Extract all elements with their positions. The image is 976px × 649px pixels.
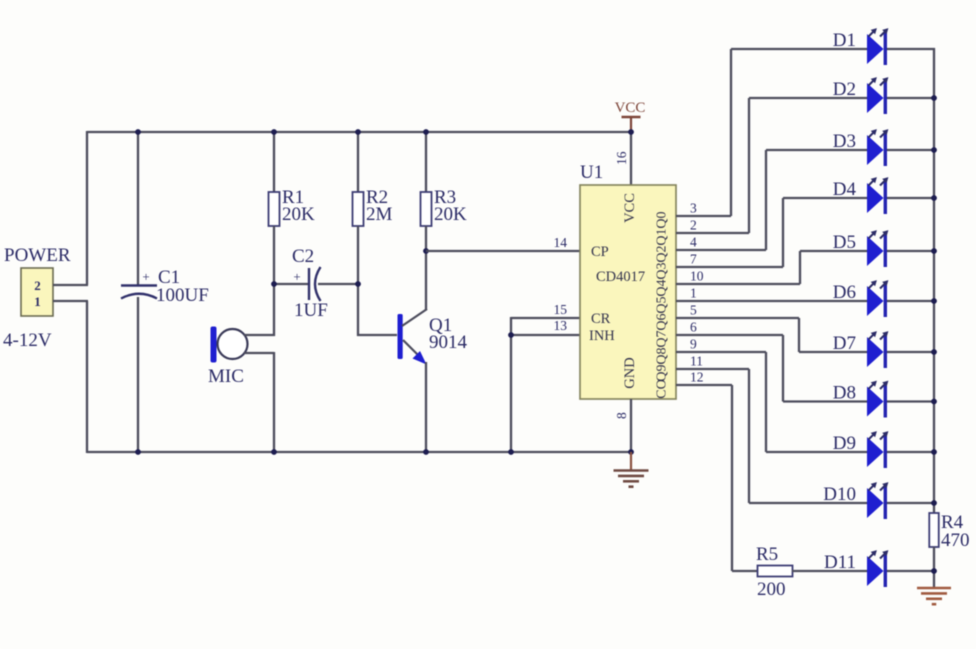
wire pin 9 to D9 xyxy=(676,352,867,452)
wire C1 bottom lead xyxy=(137,297,139,453)
wire CP pin 14 xyxy=(426,250,580,252)
capacitor C2 plus sign xyxy=(293,269,300,284)
svg-text:100UF: 100UF xyxy=(156,285,209,306)
wire R3 top lead xyxy=(425,131,427,192)
IC pin name Q1 xyxy=(655,228,670,245)
LED D9 xyxy=(867,431,888,468)
svg-text:Q8: Q8 xyxy=(655,347,670,364)
junction INH node xyxy=(508,332,514,338)
pin 6 number xyxy=(690,320,697,335)
transistor Q1 collector xyxy=(402,252,427,326)
svg-text:2M: 2M xyxy=(366,204,393,225)
LED D5 label xyxy=(833,232,856,253)
wire POWER pin1 to left rail xyxy=(53,300,88,302)
transistor Q1 value 9014 xyxy=(429,332,468,353)
wire IC pin8 to ground xyxy=(630,399,632,453)
junction Q1 collector to CP xyxy=(423,248,429,254)
resistor R3 body xyxy=(421,192,432,226)
pin 12 number xyxy=(690,370,704,385)
svg-text:Q0: Q0 xyxy=(655,211,670,228)
svg-text:INH: INH xyxy=(589,328,615,344)
wire D11 cathode to rail xyxy=(887,570,935,572)
svg-text:+: + xyxy=(293,269,300,284)
svg-text:CD4017: CD4017 xyxy=(596,269,645,285)
junction CR-INH ground rail xyxy=(508,449,514,455)
svg-text:200: 200 xyxy=(757,579,786,600)
svg-text:Q3: Q3 xyxy=(655,262,670,279)
svg-text:8: 8 xyxy=(614,412,629,419)
junction rail D5 xyxy=(931,248,937,254)
pin 2 label of POWER xyxy=(34,278,41,293)
wire INH pin 13 xyxy=(511,334,580,336)
svg-text:470: 470 xyxy=(941,530,970,551)
svg-text:11: 11 xyxy=(690,354,703,369)
junction rail D4 xyxy=(931,195,937,201)
svg-text:D2: D2 xyxy=(833,79,856,100)
IC pin name Q5 xyxy=(655,296,670,313)
wire D2 cathode to rail xyxy=(887,97,935,99)
svg-text:C2: C2 xyxy=(292,246,314,267)
ground symbol right xyxy=(917,588,951,604)
IC pin name INH xyxy=(589,328,615,344)
junction rail D7 xyxy=(931,349,937,355)
LED D5 xyxy=(867,230,888,267)
svg-text:12: 12 xyxy=(690,370,704,385)
svg-text:Q9: Q9 xyxy=(655,364,670,381)
pin 10 number xyxy=(690,269,704,284)
wire CR-INH down to ground rail xyxy=(510,317,512,453)
svg-text:CP: CP xyxy=(591,244,609,260)
pin 13 number xyxy=(554,318,568,333)
svg-text:1: 1 xyxy=(34,294,41,309)
IC pin name CO xyxy=(655,379,670,398)
LED D6 label xyxy=(833,282,856,303)
junction rail D2 xyxy=(931,95,937,101)
pin 7 number xyxy=(690,252,697,267)
resistor R2 body xyxy=(353,192,364,226)
pin 4 number xyxy=(690,235,697,250)
wire D6 cathode to rail xyxy=(887,300,935,302)
wire pin 3 to D1 xyxy=(676,49,867,216)
resistor R5 value 200 xyxy=(757,579,786,600)
IC pin name Q9 xyxy=(655,364,670,381)
wire C2 left lead xyxy=(274,283,309,285)
LED D2 xyxy=(867,77,888,114)
svg-text:D6: D6 xyxy=(833,282,856,303)
junction rail D9 xyxy=(931,449,937,455)
wire LED cathode rail xyxy=(933,48,935,513)
wire pin 7 to D4 xyxy=(676,198,867,267)
capacitor C2 value 1UF xyxy=(294,300,328,321)
svg-text:3: 3 xyxy=(690,201,697,216)
resistor R5 body xyxy=(758,566,793,577)
svg-text:1: 1 xyxy=(690,286,697,301)
svg-text:4-12V: 4-12V xyxy=(3,330,52,351)
resistor R2 designator xyxy=(366,187,388,208)
transistor Q1 base bar xyxy=(398,314,403,359)
IC pin name Q7 xyxy=(655,330,670,347)
resistor R1 value 20K xyxy=(282,204,315,225)
LED D6 xyxy=(867,280,888,317)
wire left rail lower segment xyxy=(86,301,88,453)
wire D9 cathode to rail xyxy=(887,451,935,453)
wire pin 2 to D2 xyxy=(676,98,867,233)
svg-text:U1: U1 xyxy=(580,162,603,183)
svg-text:Q4: Q4 xyxy=(655,279,670,296)
junction R1 top rail xyxy=(271,129,277,135)
IC pin name VCC xyxy=(622,193,638,223)
ground symbol under IC xyxy=(614,452,649,487)
wire R4 to ground xyxy=(933,547,935,588)
pin 1 number xyxy=(690,286,697,301)
IC pin name Q8 xyxy=(655,347,670,364)
LED D4 xyxy=(867,177,888,214)
capacitor C1 plus sign xyxy=(142,269,149,284)
connector J1 POWER body xyxy=(21,268,53,316)
wire R1 bottom lead to MIC xyxy=(273,226,275,336)
svg-text:VCC: VCC xyxy=(622,193,638,223)
LED D7 xyxy=(867,331,888,368)
svg-text:POWER: POWER xyxy=(4,245,71,266)
wire C2 right lead xyxy=(318,283,358,285)
pin 3 number xyxy=(690,201,697,216)
svg-text:10: 10 xyxy=(690,269,704,284)
junction C1 top rail xyxy=(135,129,141,135)
svg-text:4: 4 xyxy=(690,235,697,250)
pin 16 number xyxy=(614,151,629,165)
svg-text:7: 7 xyxy=(690,252,697,267)
IC pin name Q3 xyxy=(655,262,670,279)
LED D11 label xyxy=(824,552,856,573)
IC U1 CD4017 body xyxy=(580,185,676,399)
pin 8 number xyxy=(614,412,629,419)
IC part number CD4017 xyxy=(596,269,645,285)
resistor R5 designator xyxy=(756,544,778,565)
IC pin name Q0 xyxy=(655,211,670,228)
wire C1 top lead xyxy=(137,131,139,285)
IC pin name GND xyxy=(622,357,638,388)
junction C1 bottom rail xyxy=(135,449,141,455)
capacitor C2 plates xyxy=(309,267,321,301)
svg-text:9014: 9014 xyxy=(429,332,468,353)
IC U1 designator xyxy=(580,162,603,183)
svg-text:2: 2 xyxy=(690,218,697,233)
resistor R3 value 20K xyxy=(434,204,467,225)
svg-text:1UF: 1UF xyxy=(294,300,328,321)
connector POWER label xyxy=(4,245,71,266)
svg-text:R5: R5 xyxy=(756,544,778,565)
resistor R1 body xyxy=(269,192,280,226)
svg-text:20K: 20K xyxy=(434,204,467,225)
capacitor C1 plates xyxy=(121,286,157,299)
svg-text:GND: GND xyxy=(622,357,638,388)
wire POWER pin2 to left rail xyxy=(53,284,88,286)
svg-text:Q7: Q7 xyxy=(655,330,670,347)
wire pin 6 to D8 xyxy=(676,335,867,402)
wire top power rail xyxy=(87,131,631,133)
junction rail D3 xyxy=(931,147,937,153)
capacitor C1 value 100UF xyxy=(156,285,209,306)
wire R2 top lead xyxy=(357,131,359,192)
svg-text:D9: D9 xyxy=(833,433,856,454)
wire D5 cathode to rail xyxy=(887,250,935,252)
wire VCC to IC pin16 xyxy=(630,132,632,186)
svg-text:MIC: MIC xyxy=(208,366,244,387)
IC pin name Q4 xyxy=(655,279,670,296)
LED D11 xyxy=(867,550,888,587)
junction GND rail end xyxy=(628,449,634,455)
wire R1 top lead xyxy=(273,131,275,192)
svg-text:D5: D5 xyxy=(833,232,856,253)
junction C2 right node xyxy=(355,281,361,287)
junction R3 top rail xyxy=(423,129,429,135)
junction rail D8 xyxy=(931,399,937,405)
svg-text:D8: D8 xyxy=(833,383,856,404)
resistor R2 value 2M xyxy=(366,204,393,225)
wire pin 4 to D3 xyxy=(676,150,867,250)
junction Q1 emitter bottom rail xyxy=(423,449,429,455)
IC pin name CR xyxy=(591,311,611,327)
wire D7 cathode to rail xyxy=(887,351,935,353)
svg-text:D1: D1 xyxy=(833,30,856,51)
resistor R4 value 470 xyxy=(941,530,970,551)
svg-text:Q5: Q5 xyxy=(655,296,670,313)
LED D1 xyxy=(867,28,888,65)
LED D4 label xyxy=(833,179,857,200)
svg-text:D7: D7 xyxy=(833,333,856,354)
svg-text:Q1: Q1 xyxy=(655,228,670,245)
wire D4 cathode to rail xyxy=(887,197,935,199)
svg-text:20K: 20K xyxy=(282,204,315,225)
junction MIC bottom rail xyxy=(271,449,277,455)
svg-text:VCC: VCC xyxy=(615,100,646,116)
capacitor C2 designator xyxy=(292,246,314,267)
wire R5 to D11 xyxy=(792,570,867,572)
transistor Q1 designator xyxy=(429,315,452,336)
microphone MIC label xyxy=(208,366,244,387)
LED D10 xyxy=(867,482,888,519)
resistor R3 designator xyxy=(434,187,456,208)
LED D2 label xyxy=(833,79,856,100)
pin 9 number xyxy=(690,337,697,352)
pin 2 number xyxy=(690,218,697,233)
svg-text:6: 6 xyxy=(690,320,697,335)
svg-text:15: 15 xyxy=(554,302,568,317)
junction rail D11 xyxy=(931,568,937,574)
svg-text:D10: D10 xyxy=(823,484,856,505)
LED D3 xyxy=(867,129,888,166)
svg-text:Q2: Q2 xyxy=(655,245,670,262)
svg-text:CR: CR xyxy=(591,311,611,327)
IC pin name Q2 xyxy=(655,245,670,262)
svg-text:5: 5 xyxy=(690,303,697,318)
wire D3 cathode to rail xyxy=(887,149,935,151)
pin 1 label of POWER xyxy=(34,294,41,309)
wire D8 cathode to rail xyxy=(887,400,935,402)
wire R3 bottom lead xyxy=(425,226,427,252)
wire MIC bottom terminal xyxy=(244,352,274,453)
wire pin 10 to D5 xyxy=(676,251,867,284)
svg-text:Q6: Q6 xyxy=(655,313,670,330)
LED D8 label xyxy=(833,383,856,404)
junction C2 left node xyxy=(271,281,277,287)
LED D1 label xyxy=(833,30,856,51)
pin 11 number xyxy=(690,354,703,369)
resistor R4 body xyxy=(929,513,939,547)
svg-text:+: + xyxy=(142,269,149,284)
resistor R1 designator xyxy=(282,187,304,208)
svg-text:D11: D11 xyxy=(824,552,856,573)
svg-text:16: 16 xyxy=(614,151,629,165)
power VCC symbol xyxy=(615,100,646,133)
svg-text:13: 13 xyxy=(554,318,568,333)
microphone MIC circle xyxy=(218,329,248,359)
wire MIC top terminal xyxy=(244,334,275,336)
LED D8 xyxy=(867,381,888,418)
pin 15 number xyxy=(554,302,568,317)
transistor Q1 emitter xyxy=(403,340,427,453)
wire pin 12 to D11 xyxy=(676,385,758,571)
wire pin 11 to D10 xyxy=(676,369,867,503)
wire pin 1 to D6 xyxy=(676,300,867,302)
wire R2 bottom lead xyxy=(357,226,359,336)
junction R2 top rail xyxy=(355,129,361,135)
LED D10 label xyxy=(823,484,856,505)
LED D9 label xyxy=(833,433,856,454)
svg-text:2: 2 xyxy=(34,278,41,293)
junction rail D6 xyxy=(931,298,937,304)
pin 5 number xyxy=(690,303,697,318)
svg-text:9: 9 xyxy=(690,337,697,352)
capacitor C1 designator xyxy=(158,267,180,288)
svg-text:CO: CO xyxy=(655,379,670,398)
wire left rail upper segment xyxy=(86,131,88,285)
wire D10 cathode to rail xyxy=(887,502,935,504)
wire R2 to Q1 base xyxy=(357,334,397,336)
junction VCC rail xyxy=(628,129,634,135)
microphone MIC bar xyxy=(211,327,217,363)
wire CR pin 15 xyxy=(511,317,580,319)
wire bottom ground rail xyxy=(87,451,631,453)
resistor R4 designator xyxy=(941,512,964,533)
LED D3 label xyxy=(833,131,856,152)
wire D1 cathode to rail xyxy=(887,48,935,50)
svg-text:14: 14 xyxy=(554,235,568,250)
junction rail D10 xyxy=(931,500,937,506)
pin 14 number xyxy=(554,235,568,250)
IC pin name Q6 xyxy=(655,313,670,330)
svg-text:D3: D3 xyxy=(833,131,856,152)
connector voltage label 4-12V xyxy=(3,330,52,351)
IC pin name CP xyxy=(591,244,609,260)
LED D7 label xyxy=(833,333,856,354)
wire pin 5 to D7 xyxy=(676,318,867,352)
svg-text:D4: D4 xyxy=(833,179,857,200)
